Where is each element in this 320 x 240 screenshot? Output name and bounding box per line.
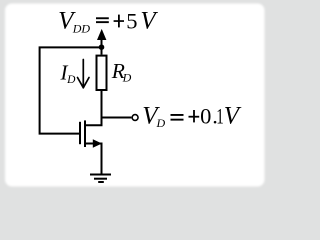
svg-text:DD: DD — [72, 21, 91, 35]
svg-text:1: 1 — [216, 104, 224, 129]
svg-text:D: D — [66, 74, 76, 86]
svg-text:D: D — [156, 116, 166, 130]
svg-text:5: 5 — [126, 8, 137, 33]
svg-text:D: D — [122, 71, 132, 85]
svg-text:0: 0 — [200, 104, 211, 129]
